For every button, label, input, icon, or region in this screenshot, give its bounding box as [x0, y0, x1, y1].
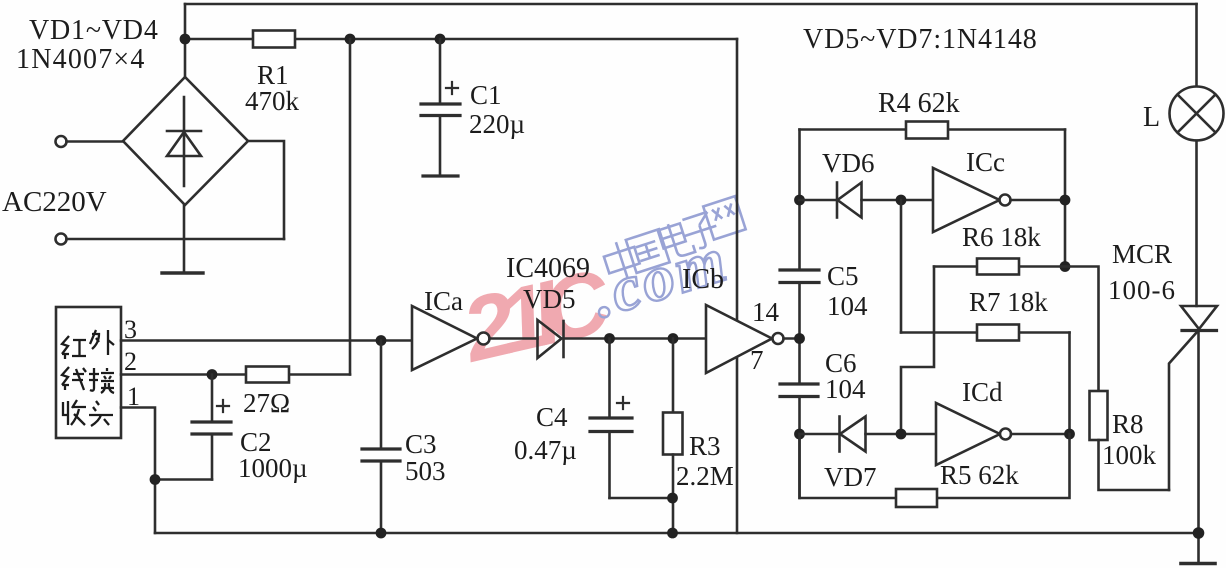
svg-text:1000µ: 1000µ: [238, 453, 308, 483]
IR receiver text jie: [89, 368, 114, 393]
IR receiver box: [56, 307, 121, 438]
svg-text:470k: 470k: [245, 86, 300, 116]
svg-text:2: 2: [124, 347, 137, 376]
svg-text:7: 7: [750, 345, 764, 375]
wire bridge right loop: [248, 141, 284, 239]
node junction pin1/C2: [150, 474, 161, 485]
wire R4 right drop: [1064, 130, 1067, 267]
capacitor C3: [362, 341, 400, 534]
node junction VD7/ICd in: [896, 429, 907, 440]
ground bottom right: [1181, 562, 1215, 566]
inverter ICa: [412, 306, 490, 370]
svg-text:27Ω: 27Ω: [243, 388, 290, 418]
svg-text:3: 3: [124, 315, 137, 344]
svg-text:L: L: [1143, 102, 1160, 133]
node junction ICc out: [1060, 195, 1071, 206]
wire top supply rail: [185, 3, 1197, 6]
svg-text:VD6: VD6: [822, 148, 875, 178]
svg-text:R4 62k: R4 62k: [878, 88, 960, 119]
wire R6 row: [934, 265, 1065, 268]
wire R8 feed from ICc out: [1065, 267, 1099, 392]
diode VD7: [800, 417, 937, 452]
IR receiver text hong: [62, 336, 86, 359]
svg-text:100k: 100k: [1102, 440, 1157, 470]
resistor R5: [896, 489, 937, 507]
wire R7 row: [901, 331, 1070, 334]
wire pin2 to 27ohm: [121, 373, 246, 376]
node junction VD6 anode: [794, 195, 805, 206]
svg-text:100-6: 100-6: [1108, 275, 1176, 305]
node junction C3/ground rail: [376, 528, 387, 539]
thyristor MCR100-6: [1169, 141, 1217, 563]
wire VD5 to ICb: [564, 337, 707, 340]
diode VD6: [800, 183, 934, 218]
IR receiver text xian: [62, 367, 86, 390]
wire VD6 node down to R7: [900, 200, 903, 333]
node junction ICb out: [794, 333, 805, 344]
capacitor C5: [780, 270, 819, 384]
inverter ICb: [706, 305, 784, 373]
wire bottom ground rail: [155, 532, 1199, 535]
resistor R8: [1090, 391, 1108, 440]
svg-text:104: 104: [825, 374, 866, 404]
svg-text:14: 14: [752, 297, 780, 327]
svg-text:1: 1: [127, 382, 140, 411]
node junction R6 right: [1060, 261, 1071, 272]
wire R6 left zigzag to ICd in: [901, 267, 934, 435]
svg-text:ICd: ICd: [962, 377, 1003, 407]
node junction rail/27ohm drop: [345, 34, 356, 45]
resistor 27ohm: [246, 367, 289, 383]
wire 27ohm drop from rail: [349, 39, 352, 375]
node junction ICd out: [1064, 429, 1075, 440]
svg-text:C5: C5: [827, 261, 859, 291]
node junction R3 top: [668, 333, 679, 344]
svg-text:VD5~VD7:1N4148: VD5~VD7:1N4148: [803, 24, 1038, 55]
svg-text:0.47µ: 0.47µ: [514, 435, 577, 465]
svg-text:220µ: 220µ: [469, 109, 525, 139]
node junction cathode/ground rail: [1193, 527, 1205, 539]
watermark zhongguo dianziwang blue: [601, 196, 746, 283]
wire pin3 to ICa: [121, 339, 412, 342]
wire ICb power drop pin7: [736, 357, 739, 533]
wire ICd out: [1011, 433, 1070, 436]
wire R4 row: [800, 128, 1066, 131]
capacitor C2: [155, 375, 231, 480]
resistor R3: [663, 339, 683, 534]
node junction pin3/C3: [376, 335, 387, 346]
svg-text:C4: C4: [536, 402, 568, 432]
svg-text:IC4069: IC4069: [506, 253, 590, 284]
inverter ICd: [936, 403, 1011, 465]
svg-text:R6 18k: R6 18k: [962, 222, 1041, 252]
svg-text:ICa: ICa: [424, 286, 463, 316]
node junction R3/ground rail: [667, 528, 678, 539]
wire ICb out to node column: [784, 337, 800, 340]
svg-text:R8: R8: [1112, 409, 1144, 439]
node junction rail/C1: [435, 34, 446, 45]
svg-text:2.2M: 2.2M: [676, 461, 734, 491]
wire 27ohm to drop: [289, 373, 350, 376]
wire ICc out: [1011, 199, 1066, 202]
node junction VD6/ICc in: [896, 195, 907, 206]
svg-text:R3: R3: [689, 431, 721, 461]
svg-text:VD1~VD4: VD1~VD4: [29, 15, 159, 46]
node junction rail/bridge: [180, 34, 191, 45]
svg-text:503: 503: [405, 456, 446, 486]
svg-text:AC220V: AC220V: [2, 186, 107, 218]
svg-text:VD5: VD5: [523, 284, 576, 314]
resistor R6: [977, 259, 1019, 275]
svg-text:ICb: ICb: [682, 264, 724, 295]
svg-text:R5 62k: R5 62k: [940, 460, 1019, 490]
svg-text:C3: C3: [405, 429, 437, 459]
resistor R4: [906, 122, 948, 139]
svg-text:104: 104: [827, 291, 868, 321]
svg-text:R7 18k: R7 18k: [969, 287, 1048, 317]
bridge rectifier VD1~VD4: [123, 77, 248, 205]
node junction C4/R3: [667, 493, 678, 504]
ground below bridge: [162, 205, 203, 273]
wire left node column: [798, 130, 801, 271]
AC terminal upper: [56, 136, 67, 147]
resistor R1: [253, 31, 295, 48]
IR receiver text wai: [90, 330, 114, 355]
inverter ICc: [933, 168, 1011, 232]
svg-text:1N4007×4: 1N4007×4: [16, 44, 146, 75]
diode VD5: [538, 320, 564, 358]
node junction VD5/C4: [604, 333, 615, 344]
svg-text:C1: C1: [470, 80, 502, 110]
AC terminal lower: [56, 234, 67, 245]
svg-text:MCR: MCR: [1112, 239, 1172, 269]
wire pin1 down to ground rail: [121, 408, 155, 534]
wire AC lower: [67, 238, 285, 241]
capacitor C4: [590, 339, 673, 499]
wire ICa out to VD5: [490, 337, 538, 340]
wire R5 row: [800, 434, 1070, 498]
capacitor C1: [421, 39, 460, 176]
capacitor C6: [780, 384, 818, 498]
wire R7 right drop to ICd out: [1068, 333, 1071, 435]
IR receiver text shou: [63, 400, 86, 425]
wire R8 to gate: [1099, 440, 1170, 490]
wire AC upper to bridge: [67, 140, 124, 143]
wire rail drop to bridge: [184, 4, 187, 77]
wire ICb power drop pin14: [736, 39, 739, 320]
IR receiver text tou: [89, 401, 113, 426]
lamp L: [1170, 4, 1224, 141]
svg-text:VD7: VD7: [824, 462, 877, 492]
resistor R7: [977, 325, 1019, 341]
svg-text:ICc: ICc: [966, 147, 1005, 177]
wire rectified rail: [185, 38, 737, 41]
node junction VD7 anode: [794, 429, 805, 440]
node junction pin2/C2: [207, 369, 218, 380]
